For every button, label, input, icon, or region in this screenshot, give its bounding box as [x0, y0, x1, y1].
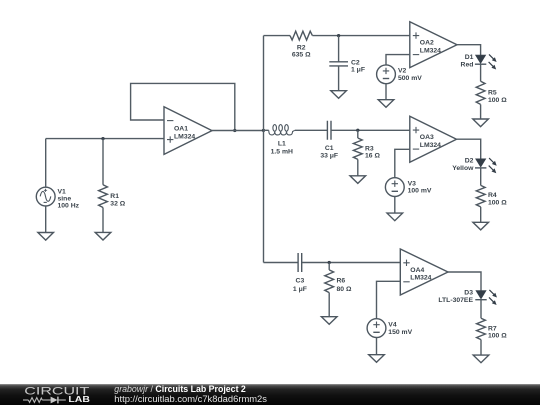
wire L1 to C1	[295, 129, 328, 131]
capacitor C1	[327, 121, 331, 140]
node junction C1/R3	[356, 129, 359, 132]
svg-text:OA3: OA3	[420, 134, 434, 141]
wire OA1 output to branch node	[212, 130, 264, 132]
op-amp OA3 LM324	[410, 116, 457, 162]
wire OA4 output to D3	[448, 272, 481, 291]
ground below V4	[369, 355, 385, 363]
svg-text:C3: C3	[296, 278, 305, 285]
svg-text:R6: R6	[337, 278, 346, 285]
voltage source V1 (sine)	[36, 187, 55, 206]
resistor R3	[353, 138, 362, 159]
svg-text:V4: V4	[388, 322, 397, 329]
ground below V2	[378, 100, 394, 108]
svg-text:sine: sine	[58, 196, 72, 203]
svg-text:L1: L1	[278, 141, 286, 148]
node feedback tap	[233, 129, 236, 132]
LED D3 (LTL-307EE)	[476, 291, 486, 299]
svg-text:OA1: OA1	[174, 125, 188, 132]
svg-text:80 Ω: 80 Ω	[337, 286, 352, 293]
resistor R7	[477, 318, 486, 339]
wire C2 top stem	[338, 36, 340, 62]
wire V4 bottom to ground	[376, 338, 378, 355]
svg-text:V1: V1	[58, 189, 67, 196]
wire OA2 - input to V2	[386, 55, 410, 65]
wire D2 to R4	[480, 168, 482, 186]
wire D1 to R5	[480, 64, 482, 81]
svg-text:R5: R5	[488, 89, 497, 96]
op-amp OA2 LM324	[410, 22, 457, 68]
svg-text:100 Hz: 100 Hz	[58, 203, 80, 210]
svg-text:150 mV: 150 mV	[388, 329, 412, 336]
svg-text:D2: D2	[465, 158, 474, 165]
svg-text:LM324: LM324	[420, 142, 441, 149]
wire R1 top stem	[102, 139, 104, 185]
svg-text:R7: R7	[488, 326, 497, 333]
wire V1 top to OA1 + input	[46, 139, 164, 188]
wire R4 to ground	[480, 207, 482, 222]
op-amp OA4 LM324	[400, 249, 448, 295]
wire R5 to ground	[480, 104, 482, 119]
svg-text:32 Ω: 32 Ω	[110, 200, 125, 207]
wire V2 bottom to ground	[385, 84, 387, 100]
svg-text:635 Ω: 635 Ω	[292, 52, 311, 59]
svg-text:LM324: LM324	[410, 275, 431, 282]
svg-text:LAB: LAB	[68, 394, 90, 404]
svg-text:OA2: OA2	[420, 40, 434, 47]
wire OA3 - input to V3	[395, 149, 410, 177]
wire C3 to OA4 + input	[302, 262, 401, 264]
ground below C2	[331, 91, 347, 99]
footer bar	[0, 384, 540, 405]
svg-text:1 μF: 1 μF	[351, 67, 365, 74]
svg-text:V2: V2	[398, 68, 407, 75]
svg-text:OA4: OA4	[410, 267, 424, 274]
wire R3 top stem	[357, 130, 359, 138]
resistor R2	[290, 31, 312, 40]
wire R6 top stem	[328, 263, 330, 270]
voltage source V3	[385, 178, 404, 197]
wire feedback loop OA1 output to - input	[131, 83, 235, 130]
svg-text:100 Ω: 100 Ω	[488, 200, 507, 207]
svg-text:100 mV: 100 mV	[408, 188, 432, 195]
svg-text:Yellow: Yellow	[452, 165, 474, 172]
wire R2 to OA2 + input	[312, 35, 409, 37]
svg-text:LTL-307EE: LTL-307EE	[438, 297, 473, 304]
wire C1 to OA3 + input	[331, 129, 410, 131]
resistor R5	[476, 81, 485, 104]
wire branch to R2	[264, 35, 291, 37]
logo wire with resistor and diode	[23, 399, 28, 401]
ground below R1	[95, 232, 111, 240]
wire R6 bottom stem	[328, 293, 330, 317]
resistor R1	[99, 185, 108, 208]
node junction R2/C2	[337, 34, 340, 37]
wire V1 bottom to ground	[45, 206, 47, 233]
ground below R3	[350, 176, 366, 184]
wire C2 bottom stem	[338, 66, 340, 91]
LED D2 (Yellow)	[476, 159, 486, 167]
svg-text:500 mV: 500 mV	[398, 75, 422, 82]
svg-text:R2: R2	[297, 44, 306, 51]
svg-text:V3: V3	[408, 181, 417, 188]
wire OA4 - input to V4	[377, 281, 401, 318]
svg-text:100 Ω: 100 Ω	[488, 333, 507, 340]
svg-text:R3: R3	[365, 145, 374, 152]
voltage source V4	[367, 319, 386, 338]
svg-text:R1: R1	[110, 193, 119, 200]
svg-text:Red: Red	[461, 61, 474, 68]
node junction V1/R1	[101, 137, 104, 140]
svg-text:C1: C1	[325, 145, 334, 152]
voltage source V2	[377, 65, 396, 84]
svg-text:33 μF: 33 μF	[320, 153, 338, 160]
wire branch vertical bus	[263, 36, 265, 263]
node output branch	[262, 129, 265, 132]
LED D1 (Red)	[476, 55, 486, 63]
ground below R6	[321, 317, 337, 325]
wire OA2 output to D1	[457, 45, 481, 55]
node junction C3/R6	[328, 261, 331, 264]
svg-text:LM324: LM324	[174, 133, 195, 140]
inductor L1	[264, 129, 269, 131]
ground below R5	[473, 119, 489, 127]
ground below V3	[387, 213, 403, 221]
svg-text:100 Ω: 100 Ω	[488, 97, 507, 104]
wire R3 bottom stem	[357, 159, 359, 175]
ground below R4	[473, 222, 489, 230]
wire R7 to ground	[480, 340, 482, 356]
wire D3 to R7	[480, 300, 482, 319]
svg-text:1 μF: 1 μF	[293, 286, 307, 293]
resistor R4	[476, 185, 485, 207]
resistor R6	[325, 270, 334, 293]
wire OA3 output to D2	[457, 139, 481, 159]
wire V3 bottom to ground	[394, 197, 396, 214]
ground below V1	[38, 233, 54, 241]
svg-text:D1: D1	[465, 54, 474, 61]
op-amp OA1 LM324	[164, 107, 212, 155]
svg-text:D3: D3	[464, 289, 473, 296]
capacitor C2	[329, 62, 348, 66]
svg-text:R4: R4	[488, 192, 497, 199]
svg-text:C2: C2	[351, 59, 360, 66]
svg-text:http://circuitlab.com/c7k8dad6: http://circuitlab.com/c7k8dad6rmm2s	[114, 393, 267, 404]
capacitor C3	[298, 253, 302, 272]
svg-text:16 Ω: 16 Ω	[365, 153, 380, 160]
svg-text:1.5 mH: 1.5 mH	[271, 149, 293, 156]
ground below R7	[473, 355, 489, 363]
svg-text:LM324: LM324	[420, 47, 441, 54]
wire branch to C3	[264, 262, 299, 264]
wire R1 bottom stem	[102, 208, 104, 233]
